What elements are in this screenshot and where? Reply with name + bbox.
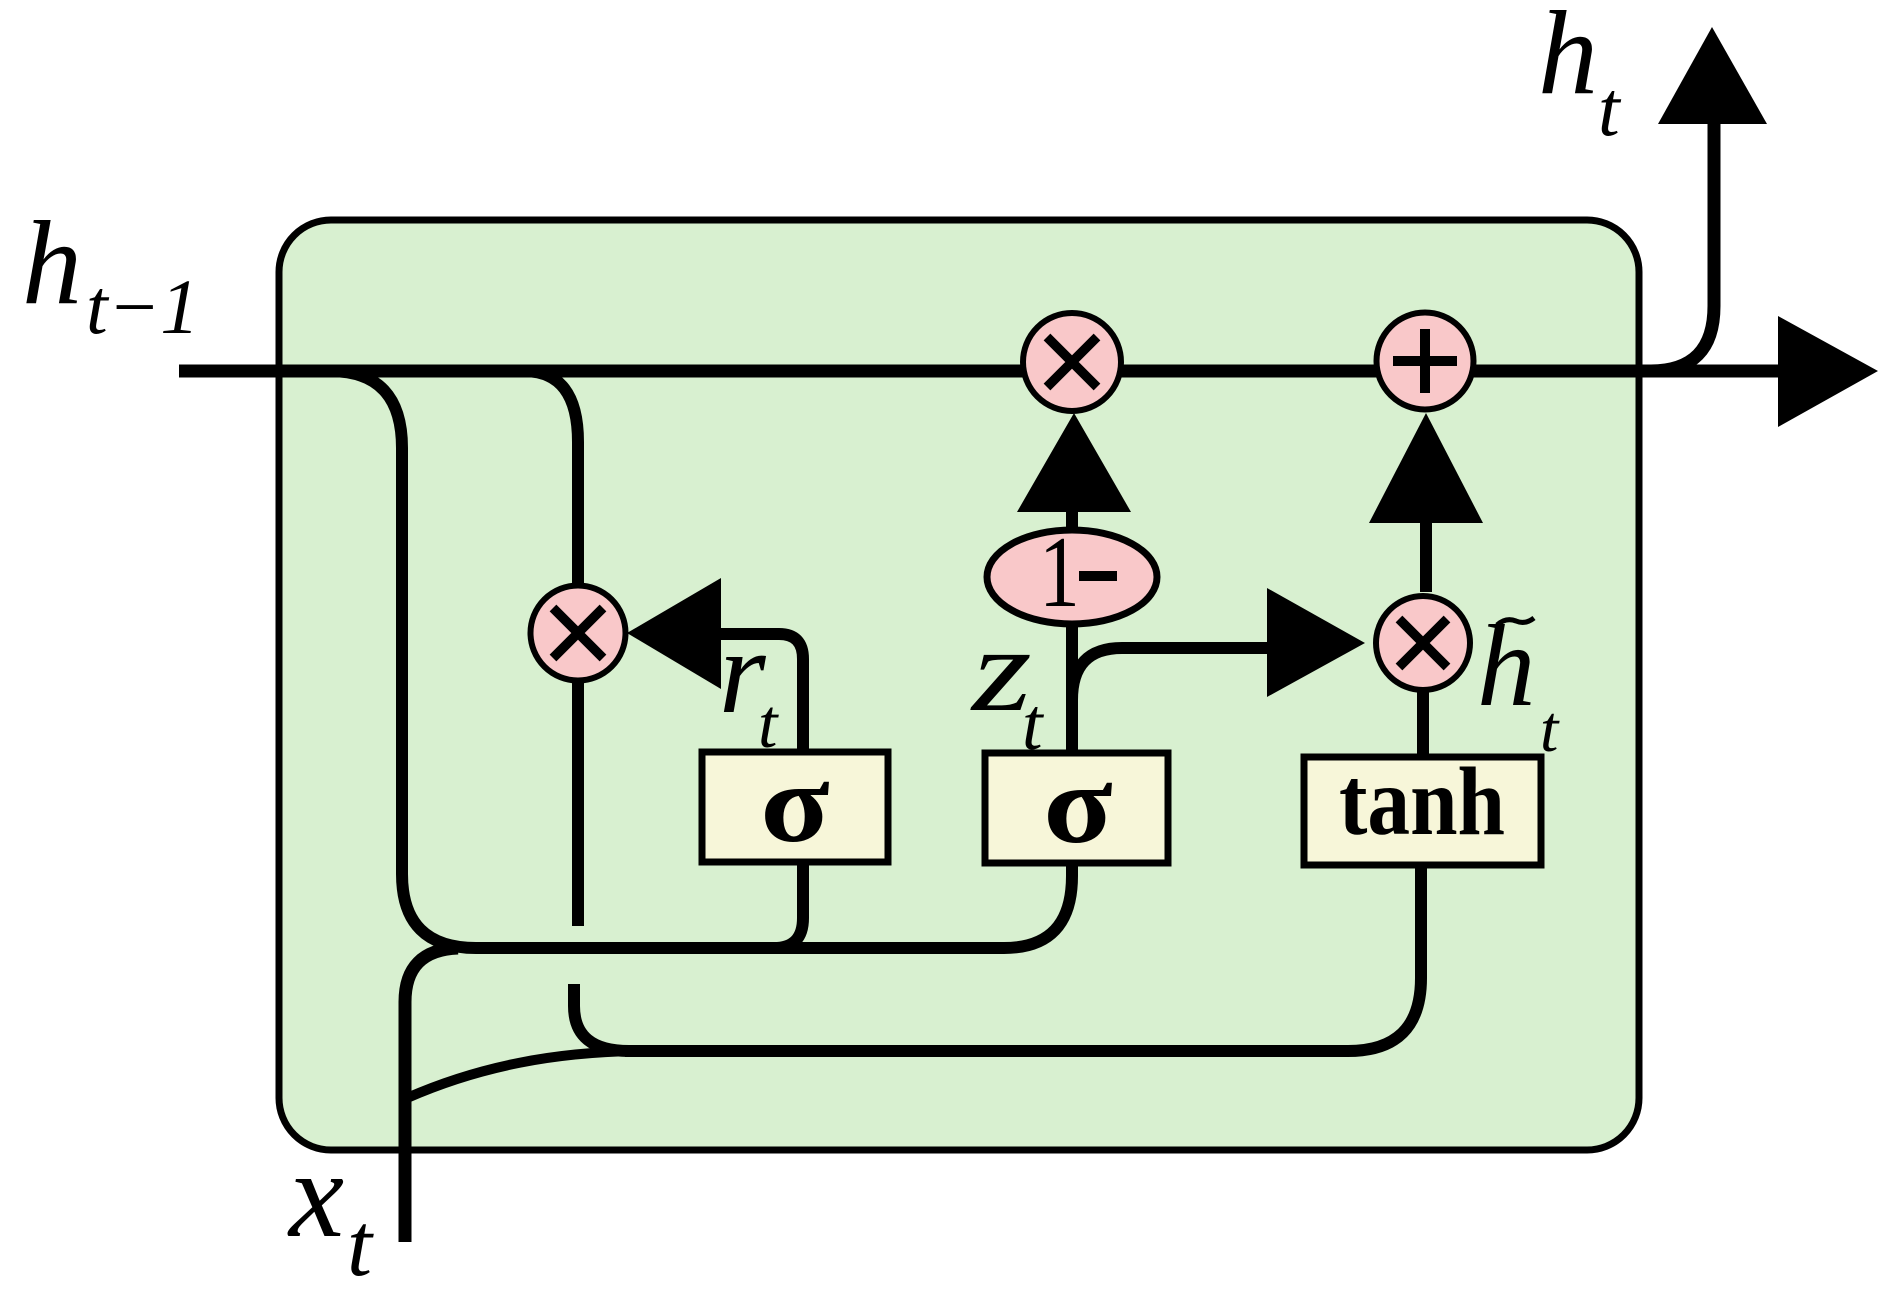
wire: x(t) input riser joining line A xyxy=(405,948,458,1242)
wire: r(t) from sigma-r to reset multiply xyxy=(718,634,803,753)
sigma box Z xyxy=(985,753,1168,863)
GRU cell body xyxy=(279,220,1639,1150)
wire: ellipse top stub xyxy=(1066,508,1078,532)
output arrowhead xyxy=(1778,316,1878,427)
svg-text:x: x xyxy=(287,1126,344,1263)
wire: x(t) swoosh branch to line B xyxy=(407,1051,640,1098)
svg-text:tanh: tanh xyxy=(1339,748,1505,856)
wire: sigma-r bottom to line A xyxy=(774,862,803,948)
arrowhead h(t) xyxy=(1658,27,1767,124)
wire: line B to tanh xyxy=(625,866,1421,1051)
wire: below reset multiply xyxy=(572,681,584,926)
tanh box xyxy=(1304,757,1541,865)
svg-text:1: 1 xyxy=(1039,515,1080,628)
wire: z branch to candidate multiply xyxy=(1072,648,1268,700)
svg-text:t−1: t−1 xyxy=(86,263,199,350)
svg-text:t: t xyxy=(1022,684,1045,766)
svg-text:σ: σ xyxy=(1043,743,1112,868)
add node xyxy=(1377,313,1474,410)
arrowhead into reset multiply xyxy=(627,578,721,689)
arrowhead into update multiply xyxy=(1017,413,1131,512)
wire: h(t-1) drop to concat line A, up to sigma-z xyxy=(330,371,1072,948)
one-minus ellipse xyxy=(987,530,1157,624)
wire: candidate multiply to tanh xyxy=(1417,690,1429,756)
svg-text:t: t xyxy=(758,686,779,763)
multiply node reset xyxy=(531,586,626,681)
svg-text:h: h xyxy=(1538,0,1598,119)
svg-text:t: t xyxy=(347,1196,374,1295)
sigma box R xyxy=(702,752,888,862)
multiply node candidate xyxy=(1376,596,1470,690)
svg-text:t: t xyxy=(1598,65,1622,152)
wire: z column: ellipse bottom to sigma-z top xyxy=(1066,624,1078,753)
multiply node update xyxy=(1023,313,1121,411)
wire: stub from reset multiply joining line B xyxy=(574,984,629,1051)
main line h(t-1) to output xyxy=(179,365,1792,378)
wire: h(t-1) drop to reset multiply xyxy=(524,371,578,585)
wire: candidate column: arrowhead stub to add xyxy=(1369,413,1483,523)
svg-text:h: h xyxy=(22,196,82,329)
svg-text:t: t xyxy=(1540,693,1560,766)
wire: h(t) up branch xyxy=(1650,122,1714,371)
arrowhead into candidate multiply xyxy=(1267,588,1365,697)
